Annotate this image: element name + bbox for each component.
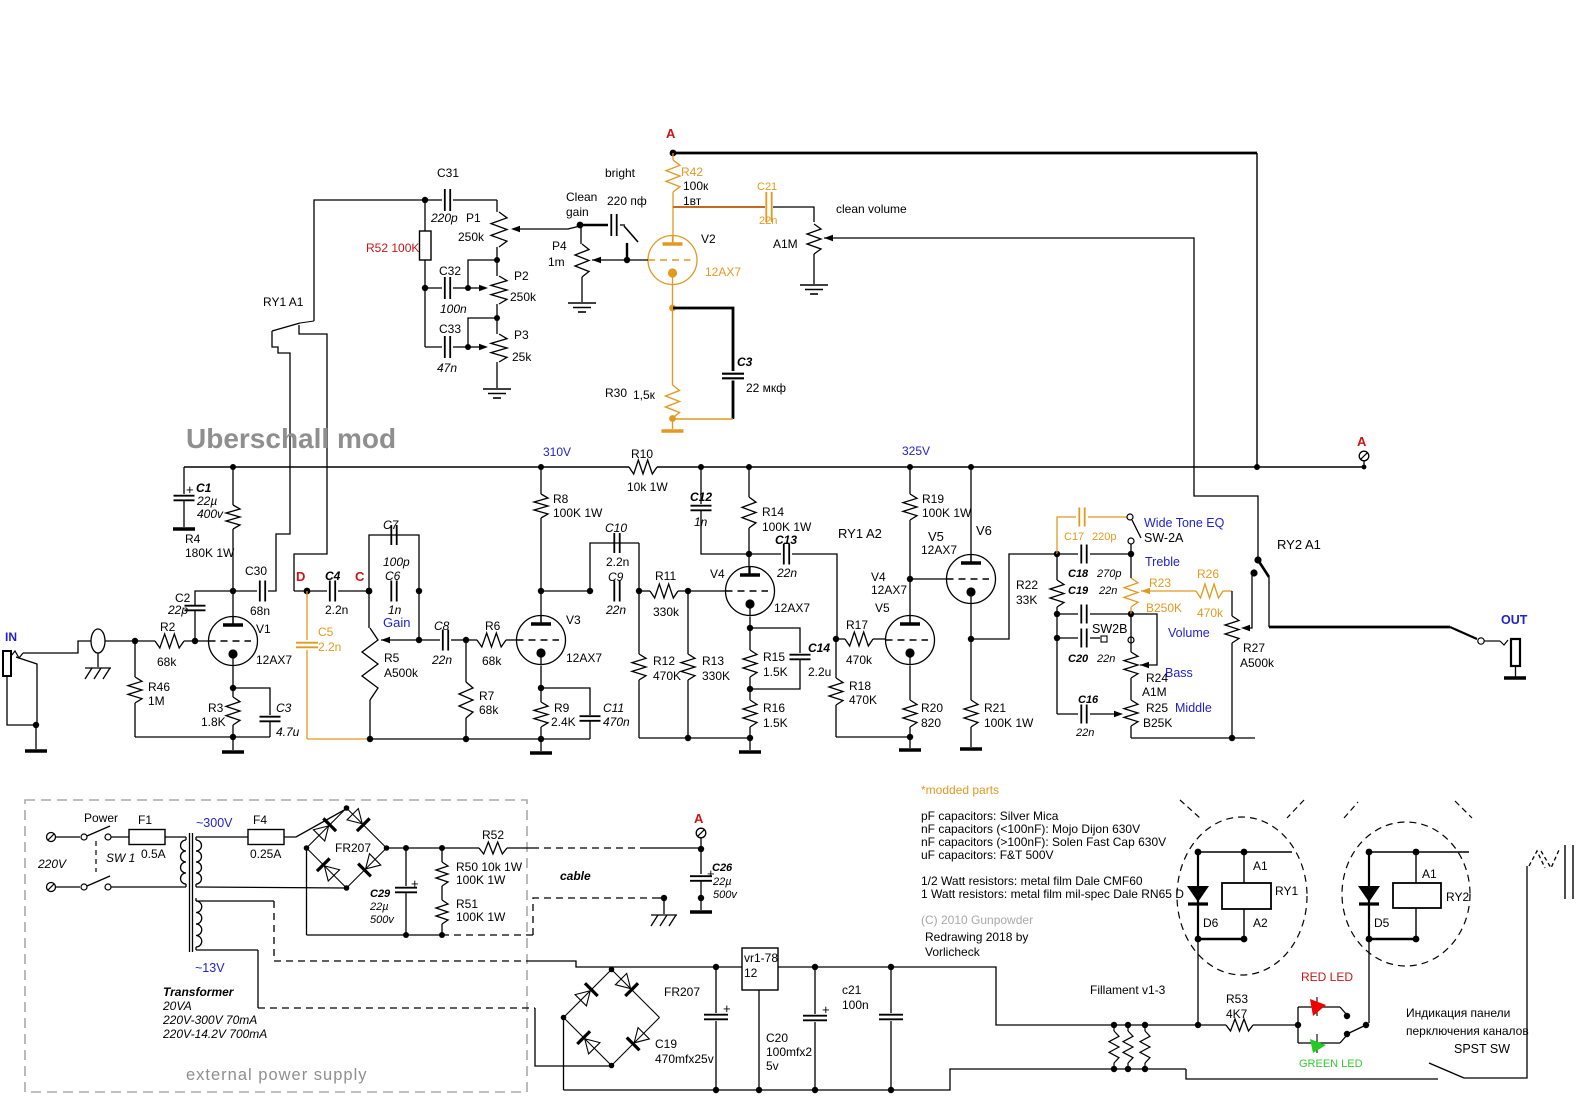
svg-text:R19: R19 <box>922 492 944 506</box>
wire bridge2 minus to bus <box>563 1018 565 1091</box>
ground V1 cathode <box>222 750 244 754</box>
filament resistors v1-3 <box>1111 1022 1117 1028</box>
svg-text:1 Watt resistors: metal film m: 1 Watt resistors: metal film mil-spec Da… <box>921 887 1184 901</box>
svg-text:A1: A1 <box>1422 867 1437 881</box>
ground V3 cathode <box>540 739 542 751</box>
svg-text:F4: F4 <box>253 813 267 827</box>
resistor R12 470K <box>638 591 640 654</box>
svg-text:RY1 A1: RY1 A1 <box>263 295 304 309</box>
svg-text:12AX7: 12AX7 <box>256 653 292 667</box>
svg-text:R9: R9 <box>554 701 570 715</box>
svg-text:Middle: Middle <box>1175 701 1212 715</box>
fuse F1 0.5A <box>111 836 129 838</box>
svg-text:перключения каналов: перключения каналов <box>1406 1024 1529 1038</box>
wire V2 plate to C21 (modded) <box>673 206 765 208</box>
svg-text:C18: C18 <box>1068 568 1089 580</box>
svg-text:+: + <box>822 1002 830 1017</box>
svg-text:250k: 250k <box>458 230 485 244</box>
svg-text:C10: C10 <box>605 521 627 535</box>
svg-text:C19: C19 <box>655 1037 677 1051</box>
svg-text:C20: C20 <box>766 1031 788 1045</box>
svg-text:12AX7: 12AX7 <box>566 651 602 665</box>
svg-text:RY2: RY2 <box>1446 890 1469 904</box>
svg-text:1.5K: 1.5K <box>763 716 788 730</box>
svg-text:Vorlicheck: Vorlicheck <box>925 945 981 959</box>
capacitor C19 22n <box>1057 613 1078 615</box>
svg-text:R23: R23 <box>1149 576 1171 590</box>
cable B+ (dashed) <box>532 847 645 849</box>
svg-text:V6: V6 <box>976 523 992 538</box>
svg-text:B25K: B25K <box>1143 716 1172 730</box>
svg-text:C29: C29 <box>370 888 391 900</box>
resistor R20 820 <box>909 666 911 701</box>
wire R5 wiper <box>381 637 390 643</box>
cable 13V AC1 (dashed) <box>196 900 274 902</box>
svg-text:R12: R12 <box>653 654 675 668</box>
wire P1 wiper to clean gain node <box>513 226 580 229</box>
ground V2 cathode (modded) <box>672 419 674 429</box>
svg-text:V2: V2 <box>701 232 716 246</box>
svg-text:V4: V4 <box>871 570 886 584</box>
svg-text:310V: 310V <box>543 445 571 459</box>
svg-text:RY2 A1: RY2 A1 <box>1277 537 1321 552</box>
svg-text:C16: C16 <box>1078 694 1099 706</box>
capacitor C1 22u 400v <box>183 467 185 494</box>
B+ rail 310V <box>184 466 629 468</box>
wire cathode to C3 (thick) <box>673 308 733 371</box>
svg-text:220V-300V 70mA: 220V-300V 70mA <box>162 1013 257 1027</box>
wire SW1 to transformer <box>111 886 186 888</box>
svg-text:22p: 22p <box>167 603 188 617</box>
svg-text:V1: V1 <box>256 622 271 636</box>
wire filament return bus <box>1186 1069 1438 1079</box>
resistor R7 68k <box>465 640 467 682</box>
svg-text:A: A <box>694 811 704 826</box>
tube V5 12AX7 <box>886 616 935 665</box>
svg-text:vr1-78: vr1-78 <box>744 951 778 965</box>
relay RY1 enclosure (dashed circle) <box>1177 817 1307 975</box>
svg-text:R17: R17 <box>846 618 868 632</box>
wire bridge minus to rail <box>306 848 308 935</box>
capacitor C12 1n <box>698 464 704 470</box>
capacitor C30 68n <box>233 590 257 592</box>
svg-text:A1M: A1M <box>773 237 798 251</box>
svg-text:R6: R6 <box>485 619 501 633</box>
svg-text:RY1 A2: RY1 A2 <box>838 526 882 541</box>
svg-text:C21: C21 <box>757 181 777 193</box>
ground OUT jack <box>1504 676 1526 680</box>
svg-text:68n: 68n <box>250 604 270 618</box>
svg-text:C9: C9 <box>608 570 624 584</box>
svg-text:Gain: Gain <box>383 615 410 630</box>
svg-text:22n: 22n <box>431 653 452 667</box>
svg-text:2.2n: 2.2n <box>606 555 629 569</box>
svg-text:330K: 330K <box>702 669 730 683</box>
capacitor C9 22n <box>613 581 615 602</box>
svg-text:R46: R46 <box>148 680 170 694</box>
svg-text:100K 1W: 100K 1W <box>762 520 812 534</box>
wire V2 grid <box>627 259 648 261</box>
svg-text:R11: R11 <box>655 569 676 583</box>
svg-text:68k: 68k <box>482 654 502 668</box>
potentiometer R27 A500k volume <box>1231 591 1233 616</box>
wire C3 return (modded) <box>673 418 734 420</box>
wire C5 to R5 bottom (modded) <box>307 738 370 740</box>
capacitor C19 filter 470mf <box>715 967 717 1013</box>
svg-text:C11: C11 <box>603 701 624 715</box>
svg-text:C13: C13 <box>775 533 797 547</box>
potentiometer P4 1m <box>580 225 582 244</box>
svg-text:22n: 22n <box>776 566 797 580</box>
bridge rectifier FR207 (13V) <box>564 970 612 1018</box>
tube V4 12AX7 <box>688 590 726 592</box>
resistor R17 470k <box>833 636 839 642</box>
svg-text:R10: R10 <box>631 447 653 461</box>
resistor R3 1.8K <box>232 666 234 698</box>
svg-text:Fillament v1-3: Fillament v1-3 <box>1090 983 1166 997</box>
capacitor C20 100mfx2 5v <box>814 967 816 1014</box>
wire R18 to V5 cathode gnd <box>836 736 910 738</box>
svg-text:330k: 330k <box>653 605 680 619</box>
svg-text:D5: D5 <box>1374 916 1390 930</box>
svg-text:A500k: A500k <box>1240 656 1275 670</box>
svg-text:IN: IN <box>5 630 17 644</box>
svg-text:22n: 22n <box>1075 727 1094 739</box>
svg-text:5v: 5v <box>766 1059 779 1073</box>
svg-text:100mfx2: 100mfx2 <box>766 1045 812 1059</box>
svg-text:RY1: RY1 <box>1275 884 1298 898</box>
svg-text:12AX7: 12AX7 <box>871 583 907 597</box>
svg-text:Clean: Clean <box>566 190 597 204</box>
wire 12V raw rail <box>612 966 717 968</box>
svg-text:470K: 470K <box>849 693 877 707</box>
svg-text:pF capacitors: Silver Mica: pF capacitors: Silver Mica <box>921 809 1059 823</box>
svg-text:SPST SW: SPST SW <box>1454 1042 1510 1056</box>
regulator vr1-78 12 <box>716 966 742 968</box>
svg-text:V5: V5 <box>875 601 890 615</box>
transformer T1 <box>181 840 186 884</box>
wire V3 anode to C9/C10 <box>541 590 590 592</box>
resistor R19 100K 1W <box>907 464 913 470</box>
svg-text:R4: R4 <box>185 532 201 546</box>
jack sleeve to ground <box>7 676 36 725</box>
resistor R46 1M <box>134 641 136 677</box>
wire tone stack bottom <box>1131 737 1255 739</box>
svg-text:R16: R16 <box>763 701 785 715</box>
ground jack <box>25 749 47 753</box>
svg-text:C26: C26 <box>712 862 733 874</box>
bridge rectifier FR207 (HV) <box>307 808 347 848</box>
resistor R14 100K 1W <box>746 464 752 470</box>
svg-text:22n: 22n <box>1096 653 1115 665</box>
relay RY1 coil <box>1198 851 1292 853</box>
svg-text:1n: 1n <box>694 515 708 529</box>
wire RY1 bottom <box>1196 938 1246 941</box>
svg-text:2.2n: 2.2n <box>325 603 348 617</box>
svg-text:220p: 220p <box>430 211 458 225</box>
svg-text:R52: R52 <box>482 828 504 842</box>
svg-text:220V-14.2V 700mA: 220V-14.2V 700mA <box>162 1027 267 1041</box>
svg-text:1вт: 1вт <box>683 194 702 208</box>
resistor R15 1.5K <box>749 617 751 651</box>
svg-text:1,5к: 1,5к <box>633 388 656 402</box>
svg-text:1.8K: 1.8K <box>201 715 226 729</box>
ferrite bead <box>91 629 105 653</box>
svg-text:C20: C20 <box>1068 653 1089 665</box>
svg-text:~13V: ~13V <box>195 961 225 975</box>
svg-text:20VA: 20VA <box>162 999 192 1013</box>
wire RY1 to filament supply <box>1197 939 1199 1025</box>
resistor R16 1.5K <box>743 700 757 727</box>
capacitor C18 270p <box>1057 553 1078 555</box>
svg-text:12: 12 <box>744 966 758 980</box>
svg-text:100n: 100n <box>440 302 467 316</box>
wire C32 to P1/P2 junction <box>468 260 497 288</box>
svg-text:500v: 500v <box>713 889 738 901</box>
wire V6 out to tone stack <box>971 554 1057 639</box>
contact to node D <box>294 325 327 591</box>
wire bus C32-C33 <box>424 288 426 347</box>
svg-text:F1: F1 <box>138 813 152 827</box>
svg-text:100K 1W: 100K 1W <box>456 910 506 924</box>
ground bus PSU <box>564 1069 1187 1090</box>
potentiometer R5 A500k gain <box>368 591 370 628</box>
svg-text:bright: bright <box>605 166 636 180</box>
resistor R10 10k 1W <box>629 460 657 474</box>
svg-text:33K: 33K <box>1016 593 1037 607</box>
wire bridge plus to C29 <box>387 847 480 849</box>
svg-text:R13: R13 <box>702 654 724 668</box>
svg-text:C31: C31 <box>437 166 459 180</box>
wire jack tip to ferrite <box>23 641 91 653</box>
svg-text:220 пф: 220 пф <box>607 194 647 208</box>
svg-text:R42: R42 <box>681 165 703 179</box>
svg-text:+: + <box>411 876 419 891</box>
capacitor C21 22n (modded) <box>765 192 767 222</box>
svg-text:R21: R21 <box>984 701 1006 715</box>
svg-text:470K: 470K <box>653 669 681 683</box>
capacitor C8 22n <box>419 639 440 641</box>
ground V6 cathode <box>960 747 982 751</box>
svg-text:100K 1W: 100K 1W <box>456 873 506 887</box>
svg-text:SW2B: SW2B <box>1092 622 1127 636</box>
svg-text:V5: V5 <box>928 529 944 544</box>
svg-text:22n: 22n <box>1098 585 1117 597</box>
svg-text:gain: gain <box>566 205 589 219</box>
chassis ground ferrite <box>97 653 99 667</box>
svg-text:100p: 100p <box>383 555 410 569</box>
svg-text:c21: c21 <box>842 983 862 997</box>
capacitor C2 22p <box>194 611 196 641</box>
resistor R6 68k <box>463 637 469 643</box>
svg-text:R26: R26 <box>1197 567 1219 581</box>
svg-text:Wide Tone EQ: Wide Tone EQ <box>1144 516 1225 530</box>
svg-text:B250K: B250K <box>1146 601 1182 615</box>
wire V2 cathode (modded) <box>672 285 674 386</box>
svg-text:12AX7: 12AX7 <box>774 601 810 615</box>
svg-text:Индикация панели: Индикация панели <box>1406 1006 1510 1020</box>
svg-text:470k: 470k <box>846 653 873 667</box>
diode D5 <box>1368 852 1370 939</box>
svg-text:R2: R2 <box>160 620 176 634</box>
svg-text:25k: 25k <box>512 350 532 364</box>
svg-text:100n: 100n <box>842 998 869 1012</box>
resistor R26 470k (modded) <box>1141 588 1150 594</box>
switch bright <box>624 226 638 242</box>
svg-text:220p: 220p <box>1092 531 1116 543</box>
svg-text:100K 1W: 100K 1W <box>553 506 603 520</box>
resistor R42 100k 1W (modded) <box>672 153 674 160</box>
svg-text:D: D <box>296 569 305 584</box>
svg-text:Redrawing 2018 by: Redrawing 2018 by <box>925 930 1028 944</box>
svg-text:22 мкф: 22 мкф <box>746 381 786 395</box>
svg-text:1M: 1M <box>148 694 165 708</box>
svg-text:R20: R20 <box>921 701 943 715</box>
resistor R18 470K <box>835 639 837 678</box>
svg-text:100к: 100к <box>683 179 709 193</box>
capacitor bright 220pf <box>580 224 608 227</box>
resistor R2 68k <box>135 640 155 642</box>
svg-text:470k: 470k <box>1197 606 1224 620</box>
svg-text:uF capacitors: F&T 500V: uF capacitors: F&T 500V <box>921 848 1054 862</box>
svg-text:SW-2A: SW-2A <box>1144 531 1184 545</box>
svg-text:47n: 47n <box>437 361 457 375</box>
wire clean volume wiper to RY2 contact <box>824 238 1258 558</box>
svg-text:A2: A2 <box>1253 916 1268 930</box>
wire 12V out <box>778 966 815 968</box>
svg-text:+: + <box>186 482 194 497</box>
svg-text:220V: 220V <box>37 857 67 871</box>
svg-text:C: C <box>355 569 365 584</box>
svg-text:12AX7: 12AX7 <box>705 265 741 279</box>
resistor R11 330k <box>639 590 650 592</box>
svg-text:68k: 68k <box>479 703 499 717</box>
capacitor C20 22n <box>1056 614 1058 638</box>
wire bass wiper to treble bottom <box>1140 662 1149 668</box>
cable return (dashed) <box>442 934 533 936</box>
wire 12V to filament <box>891 967 1226 1025</box>
resistor R13 330K <box>687 591 689 654</box>
tube V3 12AX7 <box>517 616 566 665</box>
svg-text:1m: 1m <box>548 255 565 269</box>
wire C33 to P2/P3 junction <box>468 318 497 347</box>
chassis ground cable shield <box>661 895 667 901</box>
svg-text:A: A <box>1357 434 1367 449</box>
LED indicator block <box>1297 1007 1299 1043</box>
svg-text:500v: 500v <box>370 914 395 926</box>
svg-text:C1: C1 <box>196 481 212 495</box>
potentiometer A1M clean volume <box>807 224 821 254</box>
svg-text:Treble: Treble <box>1145 555 1180 569</box>
wire PSU bottom rail <box>307 934 443 936</box>
svg-text:10k 1W: 10k 1W <box>627 480 668 494</box>
svg-text:*modded parts: *modded parts <box>921 783 999 797</box>
svg-text:180K 1W: 180K 1W <box>185 546 235 560</box>
tube V6 12AX7 <box>910 578 947 580</box>
B+ rail 325V <box>657 466 1364 468</box>
svg-text:C30: C30 <box>245 564 267 578</box>
svg-text:R27: R27 <box>1243 641 1265 655</box>
svg-text:C17: C17 <box>1064 531 1084 543</box>
svg-text:GREEN LED: GREEN LED <box>1299 1058 1363 1070</box>
svg-text:820: 820 <box>921 716 941 730</box>
ground P3 <box>496 362 498 388</box>
svg-text:C19: C19 <box>1068 585 1089 597</box>
ground C26 <box>690 910 712 914</box>
ground A1M <box>813 254 815 284</box>
svg-text:C3: C3 <box>276 701 292 715</box>
svg-text:400v: 400v <box>197 507 224 521</box>
capacitor C3 4.7u <box>233 688 270 715</box>
svg-text:C3: C3 <box>737 355 753 369</box>
wire cathode bus V1 <box>135 736 270 738</box>
svg-text:V4: V4 <box>710 567 725 581</box>
svg-text:P1: P1 <box>466 211 481 225</box>
ground P4 <box>581 277 583 302</box>
wire C21 to clean volume pot <box>773 207 814 222</box>
svg-text:R30: R30 <box>605 386 627 400</box>
svg-text:D6: D6 <box>1203 916 1219 930</box>
svg-text:cable: cable <box>560 869 591 883</box>
svg-text:R15: R15 <box>763 650 785 664</box>
capacitor C17 220p (modded, wide tone EQ) <box>1057 517 1076 554</box>
svg-text:FR207: FR207 <box>664 985 700 999</box>
potentiometer R24 A1M bass <box>1130 614 1132 652</box>
relay RY2 enclosure (dashed circle) <box>1342 822 1470 966</box>
svg-text:470mfx25v: 470mfx25v <box>655 1052 714 1066</box>
capacitor C4 2.2n <box>294 590 327 592</box>
svg-text:R22: R22 <box>1016 578 1038 592</box>
svg-text:C12: C12 <box>690 490 712 504</box>
svg-text:R25: R25 <box>1146 701 1168 715</box>
svg-text:100K 1W: 100K 1W <box>984 716 1034 730</box>
svg-text:A1: A1 <box>1253 859 1268 873</box>
potentiometer R23 B250K treble (modded) <box>1124 578 1138 607</box>
tube V2 12AX7 (clean ch, modded) <box>648 236 697 285</box>
resistor R51 100K 1W <box>441 886 443 900</box>
wire ladder to RY1 A1 switch <box>314 200 425 321</box>
svg-text:R51: R51 <box>456 897 478 911</box>
wire A-node top rail <box>673 152 1257 155</box>
svg-text:SW 1: SW 1 <box>106 851 135 865</box>
svg-text:R8: R8 <box>553 492 569 506</box>
potentiometer R25 B25K middle <box>1130 678 1132 700</box>
fuse F4 0.25A <box>196 836 248 838</box>
svg-text:C14: C14 <box>808 641 830 655</box>
cable 13V AC2 (dashed) <box>196 949 258 951</box>
svg-text:68k: 68k <box>157 655 177 669</box>
svg-text:R14: R14 <box>762 505 784 519</box>
svg-text:0.5A: 0.5A <box>141 847 166 861</box>
svg-text:22µ: 22µ <box>712 876 732 888</box>
ground V4 cathode <box>749 738 751 750</box>
svg-text:C33: C33 <box>439 322 461 336</box>
svg-text:Power: Power <box>84 811 118 825</box>
svg-text:1/2 Watt resistors: metal film: 1/2 Watt resistors: metal film Dale CMF6… <box>921 874 1143 888</box>
wire down to 325V rail <box>1256 153 1258 467</box>
svg-text:270p: 270p <box>1096 568 1121 580</box>
svg-text:FR207: FR207 <box>335 841 371 855</box>
resistor R9 2.4K <box>540 666 542 703</box>
svg-text:R7: R7 <box>479 689 495 703</box>
svg-text:100K 1W: 100K 1W <box>922 506 972 520</box>
svg-text:22µ: 22µ <box>369 901 389 913</box>
capacitor C13 22n <box>749 553 781 555</box>
wire transformer to bridge AC2 <box>196 887 347 888</box>
svg-text:nF capacitors (<100nF): Mojo D: nF capacitors (<100nF): Mojo Dijon 630V <box>921 822 1140 836</box>
svg-text:V3: V3 <box>566 613 581 627</box>
svg-text:250k: 250k <box>510 290 537 304</box>
